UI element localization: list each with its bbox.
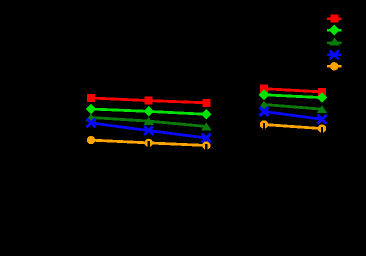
blue X markers [88, 108, 326, 141]
dark-green series line (right group) [264, 105, 322, 110]
orange circle markers [87, 120, 326, 150]
blue series line (right group) [264, 112, 322, 120]
legend green entry [327, 25, 342, 36]
dark-green triangle markers [86, 101, 328, 131]
green diamond markers [86, 90, 328, 120]
orange series line (right group) [264, 125, 322, 129]
legend blue entry [327, 51, 342, 58]
red square markers [87, 85, 326, 107]
red series line (right group) [264, 89, 322, 92]
green series line (right group) [264, 95, 322, 98]
legend red entry [327, 15, 342, 23]
dark-green series line (left group) [91, 118, 206, 127]
orange series line (left group) [91, 140, 206, 145]
legend orange entry [327, 62, 342, 70]
green series line (left group) [91, 109, 206, 114]
legend dark-green entry [327, 37, 342, 45]
blue series line (left group) [91, 123, 206, 138]
red series line (left group) [91, 98, 206, 103]
